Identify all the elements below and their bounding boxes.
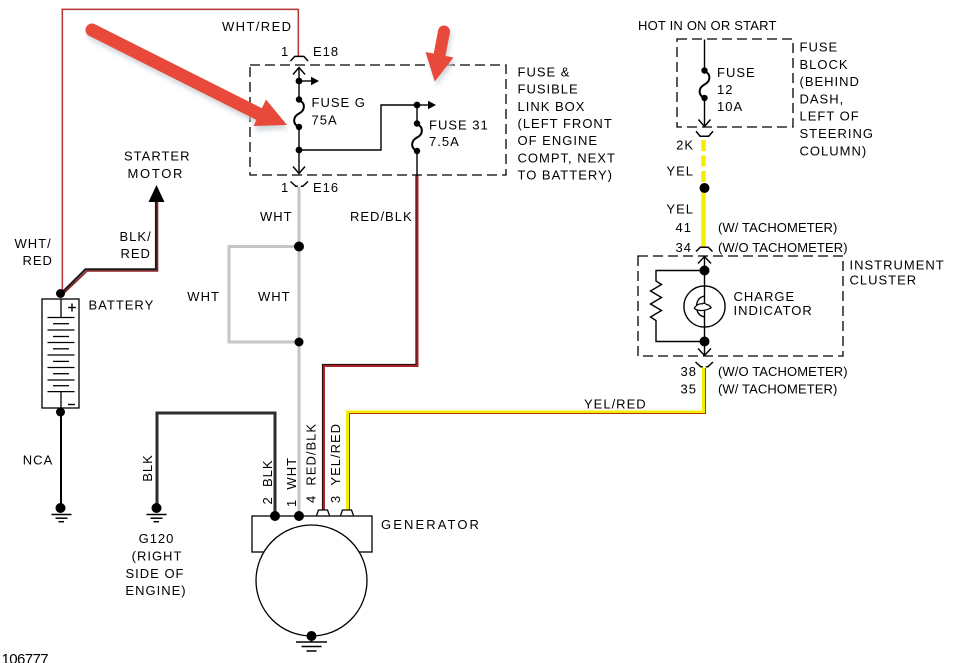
svg-text:7.5A: 7.5A <box>429 134 460 149</box>
svg-text:YEL/RED: YEL/RED <box>584 397 647 412</box>
svg-text:RED: RED <box>23 253 53 268</box>
svg-text:2 BLK: 2 BLK <box>260 459 275 504</box>
svg-text:BATTERY: BATTERY <box>89 298 155 313</box>
svg-text:SIDE OF: SIDE OF <box>125 566 184 581</box>
svg-text:1 WHT: 1 WHT <box>284 457 299 507</box>
svg-text:1: 1 <box>281 180 289 195</box>
svg-text:WHT: WHT <box>258 289 291 304</box>
svg-text:35: 35 <box>681 382 697 397</box>
svg-text:34: 34 <box>676 240 692 255</box>
svg-text:4 RED/BLK: 4 RED/BLK <box>304 423 319 503</box>
svg-text:HOT IN ON OR START: HOT IN ON OR START <box>638 18 777 33</box>
svg-text:(BEHIND: (BEHIND <box>800 74 860 89</box>
svg-text:FUSE G: FUSE G <box>312 95 366 110</box>
svg-text:(RIGHT: (RIGHT <box>132 549 183 564</box>
svg-text:38: 38 <box>681 364 697 379</box>
svg-text:(W/ TACHOMETER): (W/ TACHOMETER) <box>718 382 837 397</box>
svg-text:BLK/: BLK/ <box>120 229 152 244</box>
svg-text:2K: 2K <box>676 138 694 153</box>
svg-text:E16: E16 <box>313 180 339 195</box>
svg-text:WHT: WHT <box>260 209 293 224</box>
svg-text:TO BATTERY): TO BATTERY) <box>518 168 614 183</box>
svg-text:WHT/RED: WHT/RED <box>222 19 292 34</box>
svg-text:NCA: NCA <box>23 453 53 468</box>
svg-text:STEERING: STEERING <box>800 126 874 141</box>
svg-text:YEL: YEL <box>666 202 694 217</box>
svg-text:BLK: BLK <box>140 454 155 482</box>
svg-text:YEL: YEL <box>666 164 694 179</box>
svg-text:(W/O TACHOMETER): (W/O TACHOMETER) <box>718 364 848 379</box>
svg-text:41: 41 <box>676 220 692 235</box>
svg-text:ENGINE): ENGINE) <box>125 583 186 598</box>
svg-text:FUSE: FUSE <box>800 40 839 55</box>
svg-text:GENERATOR: GENERATOR <box>381 517 481 532</box>
svg-text:E18: E18 <box>313 44 339 59</box>
svg-text:FUSIBLE: FUSIBLE <box>518 82 579 97</box>
svg-text:75A: 75A <box>312 113 338 128</box>
svg-text:COLUMN): COLUMN) <box>800 143 868 158</box>
svg-text:10A: 10A <box>717 99 743 114</box>
svg-text:STARTER: STARTER <box>124 149 190 164</box>
svg-text:106777: 106777 <box>2 651 49 663</box>
svg-text:LEFT OF: LEFT OF <box>800 109 860 124</box>
svg-text:1: 1 <box>281 44 289 59</box>
svg-text:MOTOR: MOTOR <box>128 166 185 181</box>
svg-text:WHT/: WHT/ <box>15 236 52 251</box>
svg-text:RED/BLK: RED/BLK <box>350 209 413 224</box>
svg-text:WHT: WHT <box>187 289 220 304</box>
svg-text:FUSE 31: FUSE 31 <box>429 118 489 133</box>
svg-text:CLUSTER: CLUSTER <box>850 272 918 287</box>
svg-text:FUSE &: FUSE & <box>518 65 571 80</box>
svg-text:12: 12 <box>717 82 733 97</box>
svg-text:DASH,: DASH, <box>800 91 845 106</box>
svg-text:3 YEL/RED: 3 YEL/RED <box>328 423 343 503</box>
svg-text:(W/O TACHOMETER): (W/O TACHOMETER) <box>718 240 848 255</box>
svg-text:INSTRUMENT: INSTRUMENT <box>850 258 945 273</box>
svg-text:INDICATOR: INDICATOR <box>734 303 813 318</box>
svg-text:FUSE: FUSE <box>717 65 756 80</box>
svg-text:BLOCK: BLOCK <box>800 57 849 72</box>
svg-text:G120: G120 <box>139 531 175 546</box>
svg-text:RED: RED <box>121 246 151 261</box>
svg-text:OF ENGINE: OF ENGINE <box>518 133 599 148</box>
svg-text:(LEFT FRONT: (LEFT FRONT <box>518 116 613 131</box>
svg-text:LINK BOX: LINK BOX <box>518 99 586 114</box>
svg-text:CHARGE: CHARGE <box>734 289 796 304</box>
svg-text:(W/ TACHOMETER): (W/ TACHOMETER) <box>718 220 837 235</box>
svg-text:COMPT, NEXT: COMPT, NEXT <box>518 150 616 165</box>
